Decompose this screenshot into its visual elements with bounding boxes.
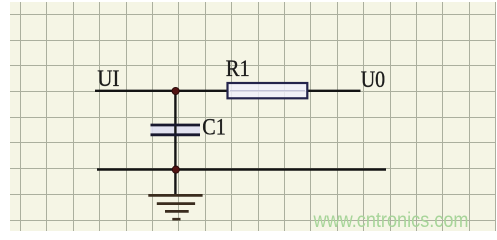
svg-text:R1: R1 xyxy=(226,56,250,81)
svg-text:U0: U0 xyxy=(361,67,385,92)
svg-text:UI: UI xyxy=(97,66,119,91)
svg-text:www.cntronics.com: www.cntronics.com xyxy=(313,209,469,232)
svg-text:C1: C1 xyxy=(202,115,226,140)
